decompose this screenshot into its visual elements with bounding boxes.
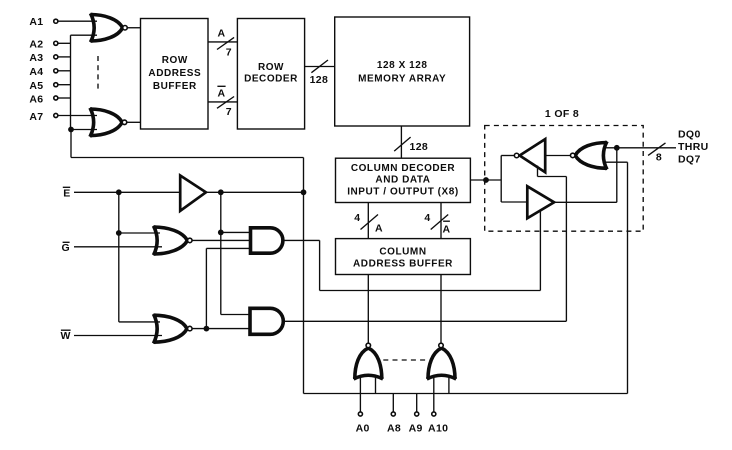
wire column A-bar bus xyxy=(440,203,442,239)
wire NOR G output to AND xyxy=(192,239,250,241)
bus slash DQ xyxy=(648,143,665,156)
node A10 label xyxy=(428,422,448,434)
svg-text:G: G xyxy=(61,242,70,254)
block 128 X 128 MEMORY ARRAY xyxy=(335,17,470,126)
junction dot data line at dashed box xyxy=(483,177,489,183)
wire bus to upper NOR lower input xyxy=(71,34,98,36)
wire buffer output up to DQ node xyxy=(616,148,618,203)
terminal A5 xyxy=(54,83,58,87)
terminal A6 xyxy=(54,96,58,100)
block ROW ADDRESS BUFFER xyxy=(141,19,209,130)
wire A5 to bus xyxy=(58,84,71,86)
svg-text:A: A xyxy=(218,28,226,40)
bus width label 8 xyxy=(656,151,662,163)
svg-text:A7: A7 xyxy=(29,111,43,123)
svg-text:A5: A5 xyxy=(29,80,43,92)
wire A7 to NOR gate input xyxy=(58,115,97,117)
svg-text:128: 128 xyxy=(410,141,429,153)
wire inverter input from NOR xyxy=(545,155,570,157)
svg-text:ROW: ROW xyxy=(258,62,284,73)
AND gate write enable (AND2) xyxy=(250,308,283,334)
svg-text:DECODER: DECODER xyxy=(244,74,298,85)
svg-text:4: 4 xyxy=(424,212,430,224)
svg-text:MEMORY ARRAY: MEMORY ARRAY xyxy=(358,74,446,85)
wire AND1 output xyxy=(283,239,320,241)
block ROW DECODER xyxy=(237,19,304,130)
wire W branch to AND1 bottom input xyxy=(206,247,250,249)
NOR gate A7 xyxy=(90,109,122,136)
terminal A1 xyxy=(54,19,58,23)
wire buffer output xyxy=(554,201,617,203)
wire chip enable bottom run xyxy=(304,393,628,395)
wire bus A row xyxy=(208,41,237,43)
wire data branch vertical x501.2 xyxy=(500,156,502,203)
node E-bar label xyxy=(63,187,71,199)
svg-text:A9: A9 xyxy=(409,422,423,434)
bus slash column A xyxy=(361,215,379,230)
node W-bar label xyxy=(61,330,71,342)
junction dot DQ node xyxy=(614,145,620,151)
wire DQ line out xyxy=(617,147,676,149)
wire A0 gate enable input xyxy=(375,377,377,394)
node DQ0 label xyxy=(678,128,701,140)
bus label A column xyxy=(375,223,383,235)
wire NOR DQ top input xyxy=(604,147,617,149)
wire output NOR disable vertical x627.5 xyxy=(627,162,629,393)
node A3 label xyxy=(29,52,43,64)
wire AND1 output jog down xyxy=(319,240,321,290)
wire junction down left xyxy=(70,130,72,158)
bubble NOR A7 output xyxy=(122,120,127,125)
node A5 label xyxy=(29,80,43,92)
bus label A row xyxy=(218,28,226,40)
bubble NOR A10 output xyxy=(439,343,444,348)
wire A9 stub xyxy=(416,394,418,412)
terminal A8 xyxy=(391,412,395,416)
wire G input xyxy=(74,246,162,248)
block COLUMN DECODER AND DATA INPUT/OUTPUT xyxy=(336,158,471,202)
NOR gate W xyxy=(154,315,188,342)
svg-text:THRU: THRU xyxy=(678,141,709,153)
buffer data output (pointing right) xyxy=(527,186,554,218)
svg-text:ROW: ROW xyxy=(162,55,188,66)
wire NOR A1 output to row address buffer xyxy=(127,27,140,29)
wire A0 NOR output to buffer xyxy=(367,275,369,344)
wire NOR W output to AND2 xyxy=(192,328,250,330)
NOR gate G xyxy=(154,227,188,254)
bubble inverter output xyxy=(514,153,519,158)
svg-text:ADDRESS BUFFER: ADDRESS BUFFER xyxy=(353,259,453,270)
svg-text:A10: A10 xyxy=(428,422,448,434)
wire AND1 output run under buffer xyxy=(320,290,541,292)
svg-text:A3: A3 xyxy=(29,52,43,64)
svg-text:DQ0: DQ0 xyxy=(678,128,701,140)
svg-text:A0: A0 xyxy=(356,422,370,434)
junction dot W NOR output xyxy=(204,326,210,332)
junction dot E branch to AND1 xyxy=(218,230,224,236)
junction dot enable bus xyxy=(68,127,74,133)
NOR gate A10 (pointing up) xyxy=(428,348,455,379)
wire A6 to bus xyxy=(58,97,71,99)
node A9 label xyxy=(409,422,423,434)
bus width label 128 (row) xyxy=(310,74,329,86)
terminal A2 xyxy=(54,41,58,45)
terminal A4 xyxy=(54,69,58,73)
wire W input xyxy=(74,335,162,337)
wire E branch vertical x220.8 xyxy=(220,192,222,314)
wire E buffer output xyxy=(206,191,304,193)
bus width label 128 (column) xyxy=(410,141,429,153)
bubble NOR G output xyxy=(188,238,193,243)
svg-text:COLUMN DECODER: COLUMN DECODER xyxy=(351,163,456,174)
wire bus 128 row xyxy=(305,66,335,68)
wire E branch to AND1 top input xyxy=(221,231,251,233)
wire NOR DQ bottom input xyxy=(604,161,628,163)
svg-text:7: 7 xyxy=(226,46,232,58)
node G-bar label xyxy=(61,242,70,254)
wire buffer input xyxy=(501,201,527,203)
buffer E (U1) xyxy=(180,176,206,211)
junction dot branch to G NOR xyxy=(116,230,122,236)
wire inverter output stub xyxy=(501,155,514,157)
wire junction to lower NOR lower input xyxy=(71,129,97,131)
svg-text:INPUT / OUTPUT (X8): INPUT / OUTPUT (X8) xyxy=(347,187,459,198)
wire A10 gate left input xyxy=(433,377,435,412)
wire AND1 output up to output buffer enable xyxy=(539,210,541,290)
wire input buffer enable stub xyxy=(537,166,539,177)
wire A1 to NOR gate input xyxy=(58,20,97,22)
node A2 label xyxy=(29,39,43,51)
svg-text:AND DATA: AND DATA xyxy=(375,175,430,186)
wire NOR A7 output to row address buffer xyxy=(127,121,141,123)
node A6 label xyxy=(29,93,43,105)
terminal A0 xyxy=(358,412,362,416)
wire W branch vertical x206.4 xyxy=(205,248,207,328)
bus slash 128 row xyxy=(311,60,328,73)
wire A0 gate left input xyxy=(359,377,361,412)
svg-text:A: A xyxy=(443,223,451,235)
wire A3 to bus xyxy=(58,56,71,58)
bubble NOR A1 output xyxy=(123,26,128,31)
svg-text:A6: A6 xyxy=(29,93,43,105)
svg-text:A2: A2 xyxy=(29,39,43,51)
NOR gate A0 (pointing up) xyxy=(355,348,382,379)
node A0 label xyxy=(356,422,370,434)
terminal A10 xyxy=(432,412,436,416)
wire vertical branch x118.8 xyxy=(118,192,120,322)
inverter data input (pointing left) xyxy=(520,139,546,172)
wire A10 NOR output to buffer xyxy=(440,275,442,344)
svg-text:128 X 128: 128 X 128 xyxy=(377,60,428,71)
wire A8 stub xyxy=(392,394,394,412)
node A8 label xyxy=(387,422,401,434)
node A1 label xyxy=(29,16,43,28)
bus width label 7 (A-bar row) xyxy=(226,106,232,118)
svg-text:BUFFER: BUFFER xyxy=(153,81,197,92)
bus slash column A-bar xyxy=(431,215,449,230)
terminal A9 xyxy=(415,412,419,416)
svg-text:A: A xyxy=(375,223,383,235)
bus label A-bar column xyxy=(443,221,451,235)
label 1 OF 8 xyxy=(545,108,579,120)
svg-text:128: 128 xyxy=(310,74,329,86)
wire column A bus xyxy=(367,203,369,239)
bubble NOR DQ output xyxy=(570,153,575,158)
bus slash A-bar row xyxy=(217,97,234,109)
junction dot E line right xyxy=(301,189,307,195)
wire branch to W NOR top input xyxy=(119,321,160,323)
junction dot E line mid xyxy=(218,189,224,195)
svg-text:COLUMN: COLUMN xyxy=(379,246,426,257)
svg-text:W: W xyxy=(61,330,71,342)
svg-text:A8: A8 xyxy=(387,422,401,434)
wire A2 to bus xyxy=(58,42,71,44)
wire chip enable vertical x303.5 xyxy=(303,158,305,394)
svg-text:4: 4 xyxy=(354,212,360,224)
svg-text:ADDRESS: ADDRESS xyxy=(148,68,201,79)
bus slash A row xyxy=(217,37,234,49)
dashed box 1 OF 8 xyxy=(485,126,644,232)
bubble NOR A0 output xyxy=(366,343,371,348)
terminal A3 xyxy=(54,55,58,59)
wire input buffer enable jog xyxy=(538,176,567,178)
wire data line decoder to I/O xyxy=(470,179,501,181)
svg-text:1 OF 8: 1 OF 8 xyxy=(545,108,579,120)
AND gate read enable (AND1) xyxy=(251,228,283,253)
bus width label 4 (A) xyxy=(354,212,360,224)
node A4 label xyxy=(29,66,43,78)
wire bus A-bar row xyxy=(208,101,237,103)
bus width label 7 (A row) xyxy=(226,46,232,58)
wire A10 gate enable input xyxy=(448,377,450,394)
bus label A-bar row xyxy=(217,86,225,99)
wire enable bus vertical xyxy=(70,35,72,129)
bubble NOR W output xyxy=(188,326,193,331)
wire E branch to AND2 top input xyxy=(221,314,250,316)
bus width label 4 (A-bar) xyxy=(424,212,430,224)
wire AND2 output up to input buffer enable xyxy=(565,177,567,322)
junction dot E line left xyxy=(116,189,122,195)
svg-text:7: 7 xyxy=(226,106,232,118)
svg-text:E: E xyxy=(63,187,70,199)
node DQ7 label xyxy=(678,154,701,166)
wire branch to G NOR top input xyxy=(119,232,160,234)
wire E input xyxy=(74,191,180,193)
block COLUMN ADDRESS BUFFER xyxy=(336,239,471,275)
wire A4 to bus xyxy=(58,70,71,72)
node A7 label xyxy=(29,111,43,123)
NOR gate DQ input (pointing left) xyxy=(575,143,607,169)
ellipsis dashes between column NOR gates xyxy=(383,359,427,361)
node THRU label xyxy=(678,141,709,153)
svg-text:A: A xyxy=(218,88,226,100)
svg-text:8: 8 xyxy=(656,151,662,163)
wire enable horizontal run xyxy=(71,157,304,159)
wire AND2 output xyxy=(283,320,566,322)
terminal A7 xyxy=(54,113,58,117)
NOR gate A1 xyxy=(91,15,123,42)
svg-text:A4: A4 xyxy=(29,66,43,78)
svg-text:A1: A1 xyxy=(29,16,43,28)
svg-text:DQ7: DQ7 xyxy=(678,154,701,166)
wire memory array to column decoder xyxy=(400,126,402,158)
ellipsis dashes between address NOR gates xyxy=(97,56,99,92)
bus slash 128 column xyxy=(394,137,410,151)
